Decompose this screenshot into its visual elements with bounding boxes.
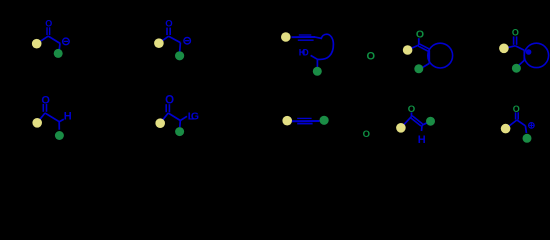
- double bond C1=O: [165, 104, 167, 112]
- double bond C1=O: [515, 112, 517, 119]
- S group circle (yellow): [32, 39, 42, 49]
- bond S-C1: [37, 113, 45, 123]
- bond C3-green: [316, 59, 318, 67]
- bond C2-C3: [523, 50, 525, 60]
- bond C2-green: [58, 122, 60, 130]
- bond C2-H: [59, 119, 64, 121]
- svg-text:O: O: [165, 18, 172, 29]
- R group circle (green): [175, 51, 184, 60]
- double bond C1=C2: [419, 44, 430, 49]
- R group circle (green): [54, 49, 63, 58]
- R group circle (green): [320, 116, 329, 125]
- bond C2-green: [58, 44, 61, 50]
- bond S-C1: [401, 117, 412, 128]
- molecule 9: enol form (row2 col4): [396, 104, 435, 146]
- bond C2-green: [525, 126, 526, 133]
- bond S-C1: [506, 120, 517, 129]
- S group circle (yellow): [282, 116, 292, 126]
- molecule 10: acylium cation (row2 col5): [501, 104, 534, 143]
- bond C2-C3: [428, 50, 430, 63]
- svg-text:O: O: [513, 104, 520, 114]
- R group circle (green): [175, 127, 184, 136]
- double bond C1=O: [46, 27, 48, 35]
- bond C1-C2: [517, 120, 526, 126]
- plus charge: [529, 123, 535, 129]
- bond C1-C2: [168, 113, 180, 121]
- macrocycle loop bond: [315, 34, 333, 59]
- bond C2-green: [179, 121, 182, 128]
- triple bond line top: [299, 34, 312, 36]
- svg-text:O: O: [41, 94, 50, 106]
- svg-text:O: O: [408, 104, 416, 115]
- triple bond line middle: [292, 36, 316, 38]
- svg-text:H: H: [64, 111, 72, 123]
- svg-text:O: O: [512, 27, 519, 37]
- macrocycle ring circle: [524, 43, 548, 67]
- triple bond line bottom: [298, 39, 314, 41]
- molecule 6: thioester with alpha-H (row2 col1): [32, 94, 71, 140]
- R group circle (green): [523, 134, 532, 143]
- molecule 7: thioester with leaving group (row2 col2): [155, 95, 199, 136]
- bond S-C1: [408, 45, 419, 50]
- bond C3-green: [519, 60, 525, 65]
- molecule 2: thioester carbanion (row1 col2): [154, 18, 190, 60]
- svg-text:HO: HO: [299, 47, 309, 57]
- macrocycle ring circle: [428, 43, 453, 68]
- svg-text:O: O: [45, 19, 52, 29]
- bond C1-C2: [515, 46, 524, 51]
- bond S-C1: [160, 113, 168, 123]
- bond C1-C2: [48, 36, 60, 44]
- molecule 8: alkyne S-C#C-R (row2 col3): [282, 116, 328, 126]
- double bond C1=O: [513, 36, 515, 44]
- triple bond bottom line: [297, 123, 312, 125]
- svg-text:O: O: [165, 95, 174, 107]
- S group circle (yellow): [32, 118, 42, 128]
- molecule 5: keto macrocycle (row1 col5): [499, 27, 549, 72]
- svg-text:O: O: [416, 29, 424, 41]
- svg-text:H: H: [418, 134, 426, 146]
- R group circle (green): [414, 64, 423, 73]
- S group circle (yellow): [499, 44, 509, 54]
- minus charge: [184, 37, 191, 44]
- triple bond sigma line: [292, 120, 320, 122]
- bond C1-C2: [169, 36, 181, 42]
- R group circle (green): [512, 64, 521, 73]
- S group circle (yellow): [403, 45, 413, 55]
- bond O-C1: [418, 38, 420, 45]
- molecule 1: thioester enolate (row1 col1): [32, 19, 69, 58]
- minus charge: [63, 38, 70, 45]
- double bond C1=O: [166, 28, 168, 35]
- triple bond top line: [297, 117, 311, 119]
- double bond C1=C2: [412, 116, 422, 124]
- svg-text:O: O: [367, 51, 376, 63]
- S group circle (yellow): [155, 118, 165, 128]
- R group circle (green): [426, 117, 435, 126]
- bond O-C3: [311, 55, 318, 59]
- bond C2-LG: [180, 116, 187, 120]
- molecule 3: ynol macrocycle (row1 col3): [281, 32, 333, 76]
- R group circle (green): [313, 67, 322, 76]
- bond S-C1: [37, 36, 49, 44]
- bond C2-green: [179, 43, 182, 52]
- bond C2-H: [421, 125, 424, 131]
- bond C2-green: [422, 121, 431, 125]
- alpha carbon dot: [526, 49, 532, 55]
- bond S-C1: [504, 46, 515, 49]
- double bond C1=O: [42, 104, 44, 112]
- svg-text:O: O: [363, 129, 370, 140]
- bond C3-green: [423, 63, 430, 67]
- S group circle (yellow): [501, 124, 511, 134]
- S group circle (yellow): [281, 32, 291, 42]
- svg-text:LG: LG: [188, 111, 199, 123]
- S group circle (yellow): [396, 123, 406, 133]
- bond C1-C2: [45, 113, 59, 122]
- molecule 4: enol macrocycle (row1 col4): [403, 29, 453, 74]
- bond S-C1: [159, 36, 169, 43]
- bond O-C1: [411, 112, 413, 116]
- R group circle (green): [55, 131, 64, 140]
- S group circle (yellow): [154, 38, 164, 48]
